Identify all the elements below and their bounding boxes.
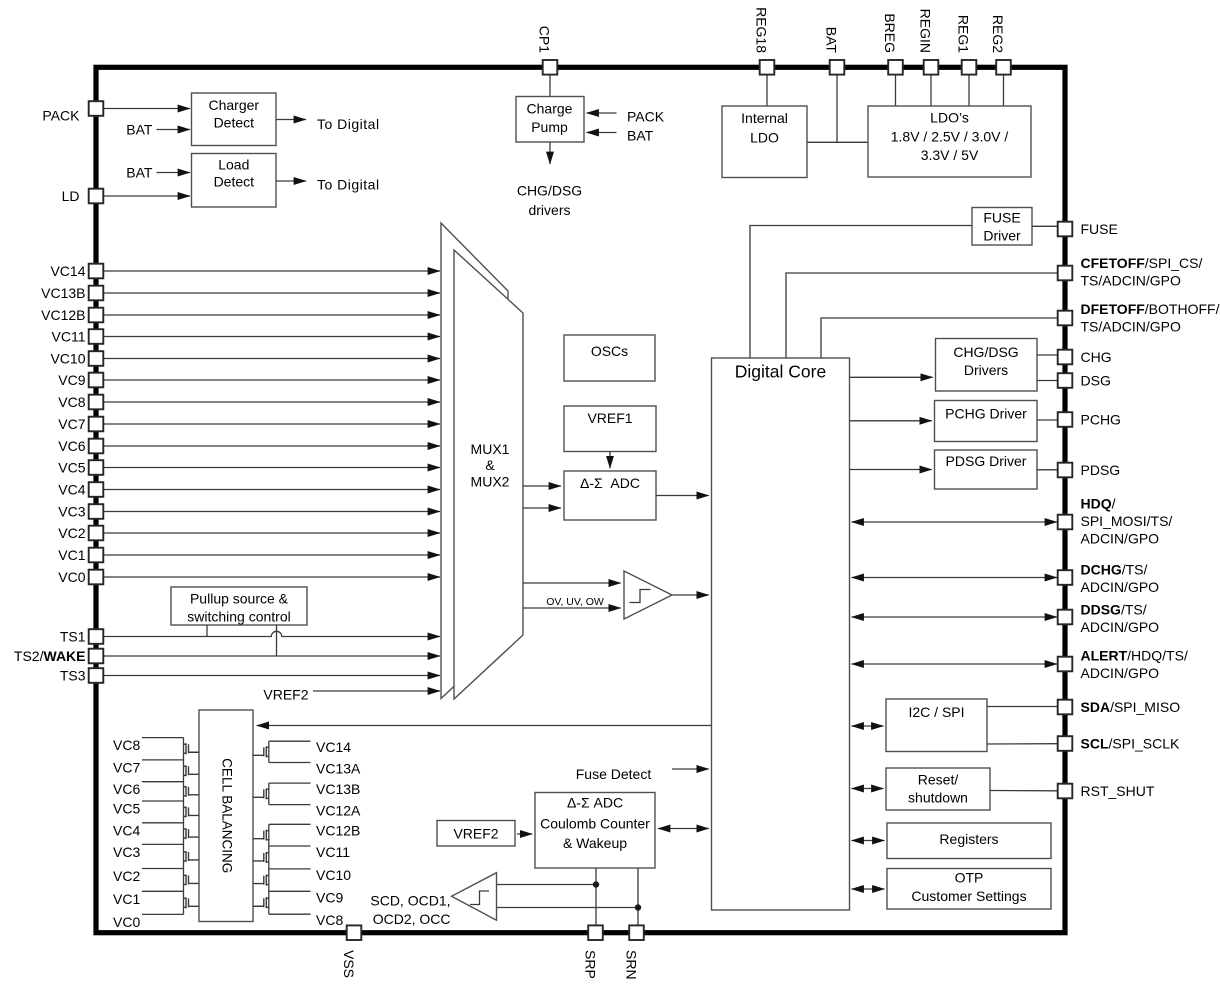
svg-text:VC6: VC6 (58, 438, 85, 454)
label SCD, OCD1, OCD2, OCC (370, 893, 450, 927)
mux MUX1 (back shape) (441, 223, 508, 699)
svg-text:VC13B: VC13B (41, 285, 85, 301)
wire SCD comparator input (upper) (497, 884, 597, 886)
junction SRP node (593, 881, 599, 887)
svg-text:DSG: DSG (1081, 372, 1111, 388)
svg-text:HDQ/: HDQ/ (1081, 495, 1116, 511)
svg-text:Δ-Σ ADC: Δ-Σ ADC (580, 475, 640, 491)
wire LD to Load Detect (103, 195, 190, 197)
wire cell balance right VC11 (269, 845, 311, 847)
svg-text:VC7: VC7 (113, 759, 140, 775)
svg-text:SCD, OCD1,: SCD, OCD1, (370, 893, 450, 909)
pin TS1 (60, 629, 103, 645)
wire REG18 to Internal LDO (766, 75, 768, 106)
wire right balancing bracket 3 (268, 824, 270, 914)
junction SRN node (635, 904, 641, 910)
svg-text:TS2/WAKE: TS2/WAKE (14, 648, 86, 664)
svg-text:VC10: VC10 (316, 867, 351, 883)
block CELL BALANCING (199, 710, 253, 922)
pin LD (62, 188, 104, 204)
svg-text:Internal: Internal (741, 110, 788, 126)
svg-text:VC12B: VC12B (41, 307, 85, 323)
transistor cell balance FET L6 (184, 851, 200, 862)
wire VC6 to MUX (103, 445, 440, 447)
wire VC14 to MUX (103, 270, 440, 272)
svg-text:DFETOFF/BOTHOFF/: DFETOFF/BOTHOFF/ (1081, 301, 1220, 317)
wire PACK into Charge Pump (587, 112, 617, 114)
svg-text:DCHG/TS/: DCHG/TS/ (1081, 561, 1148, 577)
svg-text:Δ-Σ ADC: Δ-Σ ADC (567, 795, 623, 811)
svg-text:ADCIN/GPO: ADCIN/GPO (1081, 579, 1160, 595)
wire cell balance right VC13A (269, 762, 311, 764)
wire VC0 to MUX (103, 576, 440, 578)
wire core to Reset/shutdown (852, 788, 884, 790)
comparator OV/UV/OW (624, 571, 672, 619)
svg-text:3.3V / 5V: 3.3V / 5V (921, 147, 979, 163)
wire cell balance left VC5 (142, 800, 184, 802)
wire right balancing bracket 2 (268, 783, 270, 805)
wire FUSE Driver to Digital Core (750, 226, 972, 359)
wire BAT to Charger Detect (157, 129, 191, 131)
pin SCL (1058, 735, 1180, 751)
svg-text:VC0: VC0 (58, 569, 85, 585)
wire Charger Detect to digital (276, 119, 306, 121)
svg-text:ALERT/HDQ/TS/: ALERT/HDQ/TS/ (1081, 647, 1188, 663)
svg-text:FUSE: FUSE (1081, 221, 1118, 237)
transistor cell balance FET R5 (253, 875, 269, 886)
svg-text:VC9: VC9 (316, 889, 343, 905)
pin REG18 (754, 7, 775, 75)
svg-text:VC8: VC8 (58, 394, 85, 410)
svg-text:Load: Load (218, 157, 249, 173)
svg-text:BAT: BAT (126, 122, 153, 138)
wire VC7 to MUX (103, 423, 440, 425)
svg-text:I2C / SPI: I2C / SPI (908, 704, 964, 720)
block Internal LDO (722, 106, 807, 178)
transistor cell balance FET R3 (253, 830, 269, 841)
wire VC9 to MUX (103, 379, 440, 381)
svg-text:MUX1: MUX1 (471, 441, 510, 457)
wire Fuse Detect to core (672, 768, 709, 770)
svg-text:Charge: Charge (527, 101, 573, 117)
wire core to PCHG Driver (850, 420, 932, 422)
pin ALERT (1058, 647, 1188, 681)
wire MUX to comparator (upper) (523, 582, 621, 584)
pin VC9 (58, 372, 103, 388)
svg-text:VC13B: VC13B (316, 781, 360, 797)
svg-text:VC5: VC5 (113, 801, 140, 817)
wire BAT pin stub (836, 75, 838, 143)
svg-text:CHG: CHG (1081, 349, 1112, 365)
wire cell balance left VC0 (142, 913, 184, 915)
wire VC13B to MUX (103, 292, 440, 294)
svg-text:OCD2, OCC: OCD2, OCC (373, 911, 451, 927)
block OTP Customer Settings (887, 869, 1051, 910)
wire drivers to DSG pin (1037, 380, 1058, 382)
wire cell balance left VC4 (142, 822, 184, 824)
pin VC3 (58, 504, 103, 520)
svg-text:VC12B: VC12B (316, 822, 360, 838)
svg-text:DDSG/TS/: DDSG/TS/ (1081, 601, 1147, 617)
svg-text:&: & (485, 457, 495, 473)
svg-text:Registers: Registers (939, 831, 998, 847)
pin TS2/WAKE (14, 648, 103, 664)
pin PCHG (1058, 411, 1121, 427)
svg-text:FUSE: FUSE (983, 209, 1020, 225)
wire coulomb counter to core (bidirectional) (658, 828, 709, 830)
wire pullup to TS2 (276, 625, 278, 656)
svg-text:ADCIN/GPO: ADCIN/GPO (1081, 619, 1160, 635)
wire core to CHG/DSG Drivers (850, 376, 933, 378)
wire DCHG bidirectional (852, 577, 1058, 579)
svg-text:TS1: TS1 (60, 629, 86, 645)
svg-text:REG18: REG18 (754, 7, 770, 53)
block Delta-Sigma ADC (564, 471, 656, 520)
wire Reset to RST_SHUT pin (990, 790, 1058, 792)
wire VC2 to MUX (103, 532, 440, 534)
svg-text:VC11: VC11 (52, 329, 86, 345)
svg-text:shutdown: shutdown (908, 790, 968, 806)
svg-text:Pullup source &: Pullup source & (190, 591, 289, 607)
wire HDQ bidirectional (852, 521, 1058, 523)
pin HDQ (1058, 495, 1173, 546)
pin VSS (341, 925, 361, 978)
svg-text:Charger: Charger (209, 97, 260, 113)
svg-text:BAT: BAT (126, 165, 153, 181)
label CHG/DSG drivers (517, 183, 582, 219)
wire CFETOFF to Digital Core (786, 273, 1058, 358)
IC boundary box (96, 67, 1065, 932)
svg-text:VC7: VC7 (58, 416, 85, 432)
comparator SCD/OCD (452, 873, 497, 921)
pin REGIN (918, 9, 939, 75)
svg-text:VC5: VC5 (58, 460, 85, 476)
svg-text:PCHG Driver: PCHG Driver (945, 406, 1027, 422)
wire right balancing bracket 1 (268, 741, 270, 762)
wire I2C to SDA pin (987, 706, 1058, 708)
wire cell balance left VC7 (142, 759, 184, 761)
svg-text:Customer Settings: Customer Settings (911, 888, 1026, 904)
wire VC3 to MUX (103, 511, 440, 513)
wire core to I2C/SPI (852, 725, 884, 727)
wire pullup to TS1 (206, 625, 208, 637)
mux MUX2 (front shape) (454, 250, 523, 699)
block OSCs (564, 335, 655, 381)
pin FUSE (1058, 221, 1118, 237)
wire DDSG bidirectional (852, 616, 1058, 618)
svg-text:VC4: VC4 (113, 822, 140, 838)
svg-text:VC1: VC1 (113, 891, 140, 907)
block Digital Core (712, 358, 850, 910)
wire SRP stub (595, 868, 597, 925)
wire cell balance right VC9 (269, 890, 311, 892)
wire TS2 to MUX (103, 655, 440, 657)
svg-text:Fuse Detect: Fuse Detect (576, 766, 652, 782)
wire VC4 to MUX (103, 489, 440, 491)
svg-text:VREF2: VREF2 (453, 826, 498, 842)
label MUX1 & MUX2 (471, 441, 510, 490)
pin DDSG (1058, 601, 1159, 635)
transistor cell balance FET L5 (184, 828, 200, 839)
pin VC13B (41, 285, 103, 301)
svg-text:drivers: drivers (528, 202, 570, 218)
transistor cell balance FET R1 (253, 746, 269, 757)
wire FUSE Driver to FUSE pin (1032, 225, 1058, 227)
wire core to cell balancing (257, 725, 712, 727)
pin SRN (624, 925, 644, 979)
svg-text:PCHG: PCHG (1081, 411, 1121, 427)
wire cell balance right VC8 (269, 913, 311, 915)
pin BAT (824, 27, 845, 75)
transistor cell balance FET R4 (253, 852, 269, 863)
pin PDSG (1058, 462, 1120, 478)
wire ADC to Digital Core (656, 495, 709, 497)
wire ALERT bidirectional (852, 663, 1058, 665)
block VREF1 (564, 406, 656, 452)
svg-text:VSS: VSS (341, 950, 357, 978)
wire VC5 to MUX (103, 467, 440, 469)
wire MUX to comparator (lower) (523, 607, 621, 609)
block PDSG Driver (935, 450, 1038, 489)
svg-text:VC9: VC9 (58, 372, 85, 388)
block VREF2 (437, 821, 515, 847)
pin VC2 (58, 525, 103, 541)
wire DFETOFF to Digital Core (821, 318, 1058, 358)
svg-text:Reset/: Reset/ (918, 772, 959, 788)
svg-text:MUX2: MUX2 (471, 473, 510, 489)
block LDOs (868, 106, 1031, 177)
block Load Detect (192, 154, 277, 208)
svg-text:CP1: CP1 (537, 26, 553, 53)
svg-text:CFETOFF/SPI_CS/: CFETOFF/SPI_CS/ (1081, 255, 1203, 271)
svg-text:CELL BALANCING: CELL BALANCING (220, 758, 235, 873)
wire Charge Pump output (549, 142, 551, 164)
wire cell balance right VC14 (269, 740, 311, 742)
pin VC5 (58, 460, 103, 476)
wire PACK to Charger Detect (103, 108, 190, 110)
pin VC14 (50, 263, 103, 279)
wire BAT into Charge Pump (587, 132, 617, 134)
wire VC1 to MUX (103, 554, 440, 556)
svg-text:VC8: VC8 (316, 912, 343, 928)
wire VC12B to MUX (103, 314, 440, 316)
svg-text:RST_SHUT: RST_SHUT (1081, 783, 1155, 799)
svg-text:CHG/DSG: CHG/DSG (953, 344, 1018, 360)
svg-text:VC4: VC4 (58, 482, 85, 498)
wire VREF2 to coulomb counter (517, 833, 532, 835)
wire core to OTP (852, 888, 885, 890)
svg-text:Detect: Detect (214, 174, 255, 190)
wire PDSG Driver to pin (1037, 469, 1058, 471)
svg-text:SRP: SRP (583, 950, 599, 979)
svg-text:To Digital: To Digital (317, 116, 380, 132)
svg-text:BAT: BAT (824, 27, 840, 54)
svg-text:PDSG: PDSG (1081, 462, 1121, 478)
pin VC8 (58, 394, 103, 410)
block Charge Pump (516, 97, 584, 143)
svg-text:PACK: PACK (42, 108, 80, 124)
wire cell balance left VC8 (142, 737, 184, 739)
pin REG1 (956, 15, 977, 75)
svg-text:VC14: VC14 (50, 263, 85, 279)
svg-text:VC3: VC3 (113, 844, 140, 860)
svg-text:TS/ADCIN/GPO: TS/ADCIN/GPO (1081, 318, 1181, 334)
wire drivers to CHG pin (1037, 354, 1058, 356)
wire PCHG Driver to pin (1037, 419, 1058, 421)
wire cell balance right VC12A (269, 804, 311, 806)
svg-text:VC6: VC6 (113, 781, 140, 797)
block PCHG Driver (935, 401, 1038, 442)
svg-text:CHG/DSG: CHG/DSG (517, 183, 582, 199)
svg-text:TS3: TS3 (60, 668, 86, 684)
wire REGIN stub (930, 75, 932, 106)
svg-text:REG1: REG1 (956, 15, 972, 53)
wire MUX to ADC (lower) (523, 507, 561, 509)
pin RST_SHUT (1058, 783, 1155, 799)
svg-text:ADCIN/GPO: ADCIN/GPO (1081, 530, 1160, 546)
wire cell balance right VC13B (269, 782, 311, 784)
svg-text:Driver: Driver (983, 227, 1021, 243)
pin VC6 (58, 438, 103, 454)
wire VREF2 to MUX (313, 690, 440, 692)
wire cell balance left VC3 (142, 843, 184, 845)
pin TS3 (60, 668, 103, 684)
svg-text:VC8: VC8 (113, 737, 140, 753)
wire VC11 to MUX (103, 336, 440, 338)
wire REG1 stub (968, 75, 970, 106)
transistor cell balance FET L1 (184, 743, 200, 754)
pin CFETOFF (1058, 255, 1203, 289)
svg-text:VC10: VC10 (50, 351, 85, 367)
block Registers (887, 823, 1051, 859)
svg-text:TS/ADCIN/GPO: TS/ADCIN/GPO (1081, 272, 1181, 288)
block CHG/DSG Drivers (936, 339, 1038, 392)
wire cell balance left VC1 (142, 890, 184, 892)
svg-text:SPI_MOSI/TS/: SPI_MOSI/TS/ (1081, 513, 1173, 529)
svg-text:Drivers: Drivers (964, 362, 1008, 378)
wire VC10 to MUX (103, 358, 440, 360)
svg-text:VREF2: VREF2 (263, 687, 308, 703)
wire I2C to SCL pin (987, 743, 1058, 745)
pin VC11 (52, 329, 104, 345)
block Pullup source and switching control (171, 587, 307, 625)
pin CP1 (537, 26, 558, 75)
wire Load Detect to digital (276, 180, 306, 182)
pin SRP (583, 925, 603, 978)
svg-text:BREG: BREG (882, 13, 898, 53)
wire VREF1 to ADC (609, 452, 611, 469)
svg-text:VC13A: VC13A (316, 761, 361, 777)
transistor cell balance FET R2 (253, 788, 269, 799)
wire BAT to Load Detect (157, 172, 191, 174)
pin VC10 (50, 351, 103, 367)
transistor cell balance FET L7 (184, 874, 200, 885)
transistor cell balance FET L3 (184, 786, 200, 797)
pin VC0 (58, 569, 103, 585)
wire REG2 stub (1003, 75, 1005, 106)
svg-text:& Wakeup: & Wakeup (563, 835, 627, 851)
wire cell balance right VC12B (269, 823, 311, 825)
wire TS3 to MUX (103, 675, 440, 677)
wire MUX to ADC (upper) (523, 485, 561, 487)
svg-text:VC2: VC2 (113, 868, 140, 884)
svg-text:PACK: PACK (627, 109, 665, 125)
wire SRN stub (637, 868, 639, 925)
svg-text:REGIN: REGIN (918, 9, 934, 53)
pin BREG (882, 13, 903, 74)
block FUSE Driver (972, 208, 1032, 246)
transistor cell balance FET L8 (184, 897, 200, 908)
pin VC4 (58, 482, 103, 498)
svg-text:VC3: VC3 (58, 504, 85, 520)
block Delta-Sigma ADC Coulomb Counter and Wakeup (535, 793, 655, 869)
svg-text:SCL/SPI_SCLK: SCL/SPI_SCLK (1081, 735, 1180, 751)
svg-text:BAT: BAT (627, 128, 654, 144)
svg-text:Pump: Pump (531, 119, 568, 135)
wire core to Registers (852, 840, 885, 842)
pin DFETOFF (1058, 301, 1220, 335)
svg-text:VC11: VC11 (316, 844, 350, 860)
block Charger Detect (192, 93, 277, 146)
svg-text:Digital Core: Digital Core (735, 362, 826, 382)
pin VC7 (58, 416, 103, 432)
svg-text:Coulomb Counter: Coulomb Counter (540, 816, 650, 832)
wire comparator to Digital Core (672, 594, 709, 596)
svg-text:REG2: REG2 (990, 15, 1006, 53)
svg-text:OSCs: OSCs (591, 343, 628, 359)
wire BREG stub (895, 75, 897, 106)
wire CP1 to Charge Pump (549, 75, 551, 97)
pin CHG (1058, 349, 1112, 365)
svg-text:LDO: LDO (750, 130, 779, 146)
svg-text:SDA/SPI_MISO: SDA/SPI_MISO (1081, 699, 1181, 715)
svg-text:SRN: SRN (624, 950, 640, 980)
wire SCD comparator input (lower) (497, 907, 639, 909)
wire cell balance right VC10 (269, 868, 311, 870)
pin VC12B (41, 307, 103, 323)
svg-text:OV, UV, OW: OV, UV, OW (546, 596, 604, 608)
svg-text:switching control: switching control (187, 609, 291, 625)
wire cell balance left VC2 (142, 868, 184, 870)
wire core to PDSG Driver (850, 469, 932, 471)
svg-text:LDO’s: LDO’s (930, 110, 969, 126)
block I2C / SPI (886, 699, 987, 752)
svg-text:Detect: Detect (214, 115, 255, 131)
wire cell balance left VC6 (142, 781, 184, 783)
wire TS1 to MUX (with hop) (103, 631, 440, 636)
svg-text:1.8V / 2.5V / 3.0V /: 1.8V / 2.5V / 3.0V / (891, 129, 1009, 145)
svg-text:VC14: VC14 (316, 739, 351, 755)
svg-text:ADCIN/GPO: ADCIN/GPO (1081, 665, 1160, 681)
pin SDA (1058, 699, 1180, 715)
transistor cell balance FET R6 (253, 897, 269, 908)
svg-text:VC12A: VC12A (316, 803, 361, 819)
svg-text:OTP: OTP (955, 870, 984, 886)
svg-text:To Digital: To Digital (317, 177, 380, 193)
wire left balancing bracket (183, 738, 185, 915)
wire Internal LDO to LDOs (807, 141, 868, 143)
pin PACK (42, 101, 103, 123)
pin VC1 (58, 547, 103, 563)
svg-text:VC2: VC2 (58, 525, 85, 541)
svg-text:VC0: VC0 (113, 914, 140, 930)
transistor cell balance FET L2 (184, 765, 200, 776)
svg-text:VC1: VC1 (58, 547, 85, 563)
transistor cell balance FET L4 (184, 806, 200, 817)
pin REG2 (990, 15, 1011, 75)
svg-text:VREF1: VREF1 (587, 410, 632, 426)
svg-text:LD: LD (62, 188, 80, 204)
